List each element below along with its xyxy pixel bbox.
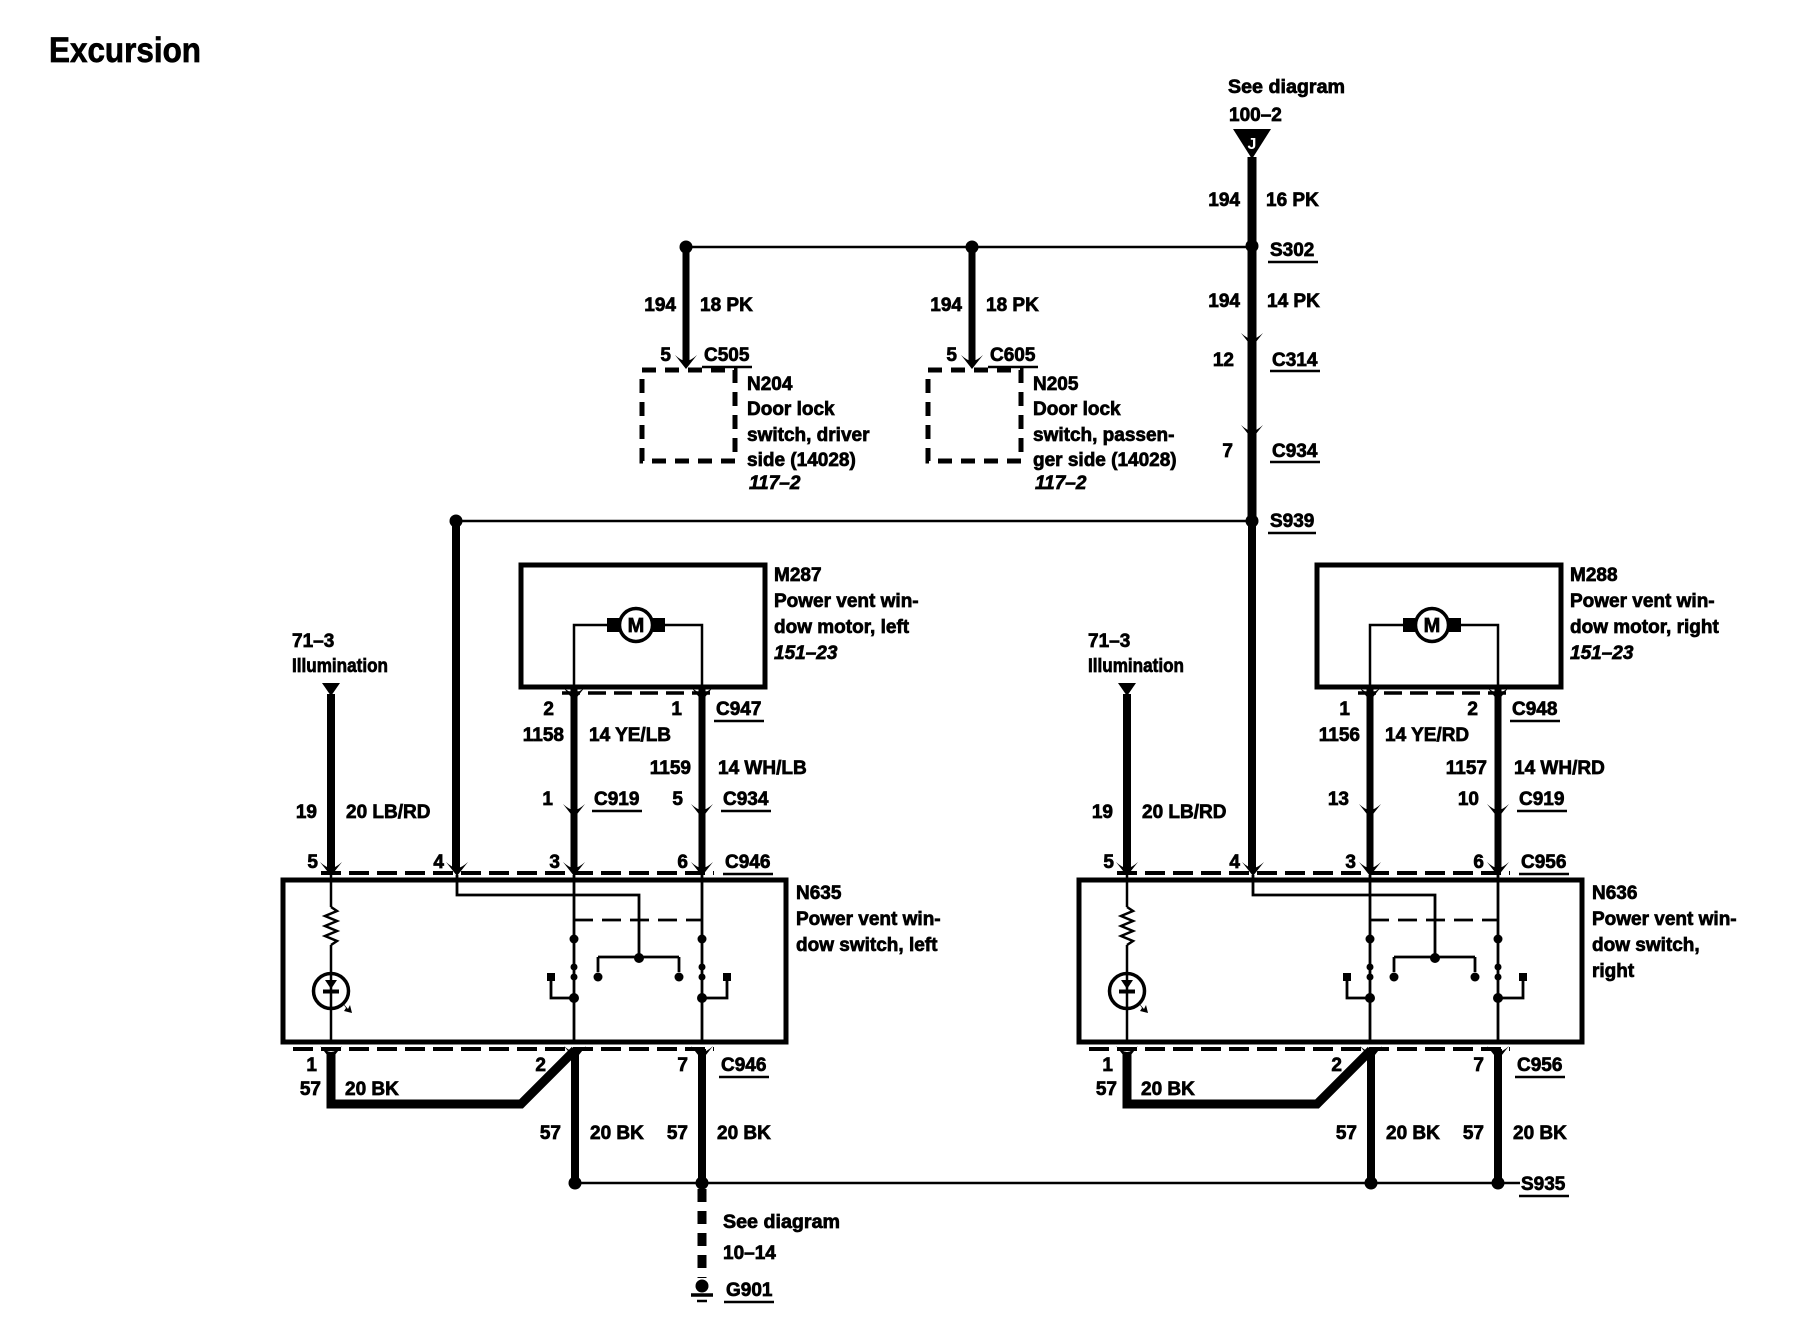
svg-text:C919: C919 [1519,789,1564,810]
svg-text:Illumination: Illumination [292,656,388,677]
svg-text:switch, driver: switch, driver [747,425,870,446]
svg-text:dow motor, left: dow motor, left [774,617,910,638]
svg-text:2: 2 [535,1055,546,1076]
svg-text:See diagram: See diagram [723,1212,840,1233]
svg-text:151–23: 151–23 [774,643,838,664]
svg-text:7: 7 [1473,1055,1484,1076]
svg-text:Door lock: Door lock [1033,399,1121,420]
svg-text:C605: C605 [990,345,1036,366]
svg-text:See diagram: See diagram [1228,77,1345,98]
svg-text:N204: N204 [747,374,793,395]
svg-text:2: 2 [1331,1055,1342,1076]
svg-text:dow motor, right: dow motor, right [1570,617,1719,638]
svg-text:151–23: 151–23 [1570,643,1634,664]
svg-text:18 PK: 18 PK [986,295,1039,316]
svg-text:71–3: 71–3 [292,631,334,652]
svg-text:19: 19 [1092,802,1113,823]
svg-text:4: 4 [433,852,444,873]
svg-text:Power vent win-: Power vent win- [796,909,941,930]
svg-text:S939: S939 [1270,511,1314,532]
svg-text:5: 5 [672,789,683,810]
svg-text:20 BK: 20 BK [1513,1123,1567,1144]
svg-text:20 LB/RD: 20 LB/RD [1142,802,1226,823]
svg-text:Door lock: Door lock [747,399,835,420]
svg-text:Power vent win-: Power vent win- [1592,909,1737,930]
svg-text:side (14028): side (14028) [747,450,856,471]
svg-text:194: 194 [644,295,676,316]
svg-text:S935: S935 [1521,1174,1566,1195]
svg-text:20 LB/RD: 20 LB/RD [346,802,430,823]
svg-text:194: 194 [930,295,962,316]
svg-text:20 BK: 20 BK [717,1123,771,1144]
svg-text:Power vent win-: Power vent win- [774,591,919,612]
svg-text:5: 5 [660,345,671,366]
svg-text:C314: C314 [1272,350,1318,371]
svg-text:3: 3 [549,852,560,873]
svg-text:10: 10 [1458,789,1479,810]
svg-text:1158: 1158 [523,725,564,746]
svg-text:194: 194 [1208,190,1240,211]
svg-text:71–3: 71–3 [1088,631,1130,652]
svg-text:117–2: 117–2 [1035,473,1087,494]
svg-text:M287: M287 [774,565,822,586]
svg-text:7: 7 [1222,441,1233,462]
svg-text:14 WH/RD: 14 WH/RD [1514,758,1605,779]
svg-text:1: 1 [1339,699,1350,720]
svg-text:S302: S302 [1270,240,1314,261]
svg-text:N205: N205 [1033,374,1079,395]
svg-text:10–14: 10–14 [723,1243,776,1264]
svg-text:1: 1 [306,1055,317,1076]
svg-text:57: 57 [1463,1123,1484,1144]
svg-text:57: 57 [667,1123,688,1144]
svg-text:57: 57 [1336,1123,1357,1144]
svg-text:194: 194 [1208,291,1240,312]
svg-text:7: 7 [677,1055,688,1076]
svg-text:Illumination: Illumination [1088,656,1184,677]
svg-text:dow switch,: dow switch, [1592,935,1700,956]
svg-text:1: 1 [542,789,553,810]
svg-text:20 BK: 20 BK [1386,1123,1440,1144]
svg-text:5: 5 [946,345,957,366]
svg-text:20 BK: 20 BK [590,1123,644,1144]
svg-text:100–2: 100–2 [1229,105,1282,126]
svg-text:C934: C934 [1272,441,1318,462]
svg-text:Power vent win-: Power vent win- [1570,591,1715,612]
svg-text:3: 3 [1345,852,1356,873]
svg-text:19: 19 [296,802,317,823]
svg-text:N635: N635 [796,883,842,904]
svg-text:2: 2 [1467,699,1478,720]
svg-text:C946: C946 [725,852,770,873]
svg-text:M288: M288 [1570,565,1618,586]
svg-text:1159: 1159 [650,758,691,779]
svg-text:57: 57 [1096,1079,1117,1100]
svg-text:C956: C956 [1517,1055,1562,1076]
svg-text:right: right [1592,961,1635,982]
svg-text:1: 1 [671,699,682,720]
svg-text:57: 57 [300,1079,321,1100]
svg-text:G901: G901 [726,1280,773,1301]
svg-text:5: 5 [1103,852,1114,873]
svg-text:1157: 1157 [1446,758,1487,779]
svg-text:1156: 1156 [1319,725,1360,746]
svg-text:57: 57 [540,1123,561,1144]
svg-text:Excursion: Excursion [49,31,201,70]
svg-text:C505: C505 [704,345,750,366]
svg-text:16 PK: 16 PK [1266,190,1319,211]
svg-text:20 BK: 20 BK [345,1079,399,1100]
svg-text:2: 2 [543,699,554,720]
svg-text:ger side (14028): ger side (14028) [1033,450,1177,471]
svg-text:C934: C934 [723,789,769,810]
svg-text:C919: C919 [594,789,639,810]
svg-text:14 WH/LB: 14 WH/LB [718,758,807,779]
svg-text:C948: C948 [1512,699,1557,720]
svg-text:14 PK: 14 PK [1267,291,1320,312]
svg-text:M: M [628,615,645,637]
svg-text:C947: C947 [716,699,761,720]
svg-text:4: 4 [1229,852,1240,873]
svg-text:14 YE/RD: 14 YE/RD [1385,725,1469,746]
svg-text:C956: C956 [1521,852,1566,873]
svg-text:5: 5 [307,852,318,873]
svg-text:J: J [1248,136,1257,153]
svg-text:12: 12 [1213,350,1234,371]
svg-text:1: 1 [1102,1055,1113,1076]
svg-text:switch, passen-: switch, passen- [1033,425,1175,446]
svg-text:117–2: 117–2 [749,473,801,494]
svg-text:6: 6 [1473,852,1484,873]
svg-text:20 BK: 20 BK [1141,1079,1195,1100]
svg-text:18 PK: 18 PK [700,295,753,316]
svg-text:13: 13 [1328,789,1349,810]
svg-text:14 YE/LB: 14 YE/LB [589,725,671,746]
svg-text:dow switch, left: dow switch, left [796,935,938,956]
svg-text:N636: N636 [1592,883,1637,904]
svg-text:M: M [1424,615,1441,637]
svg-text:C946: C946 [721,1055,766,1076]
svg-text:6: 6 [677,852,688,873]
